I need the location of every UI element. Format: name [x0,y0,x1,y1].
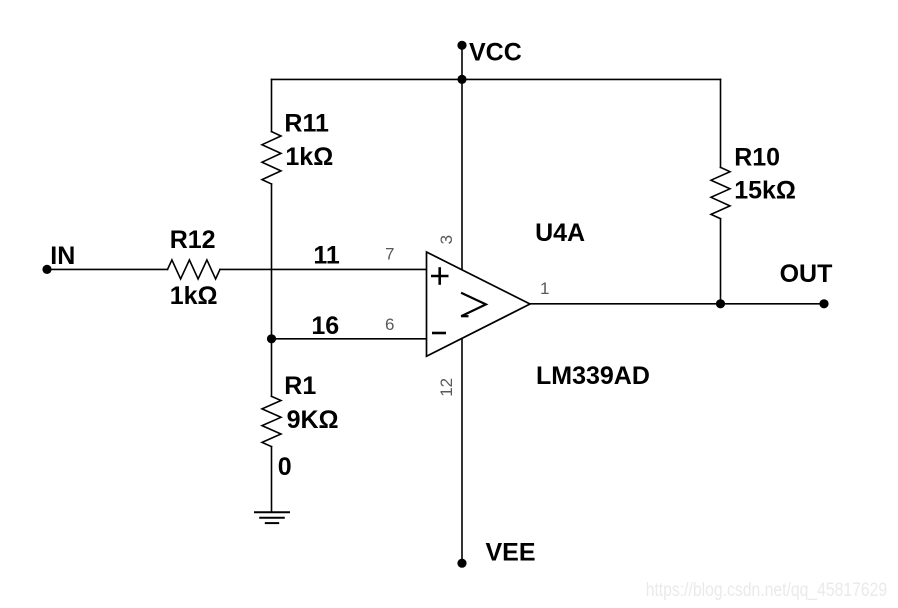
svg-text:R10: R10 [734,143,780,171]
svg-text:6: 6 [385,315,394,334]
svg-text:0: 0 [278,453,292,481]
svg-text:3: 3 [437,235,456,244]
svg-text:16: 16 [311,312,339,340]
svg-text:IN: IN [50,242,75,270]
svg-text:U4A: U4A [535,219,585,247]
svg-text:R11: R11 [284,110,329,138]
svg-text:R12: R12 [170,226,216,254]
svg-text:1kΩ: 1kΩ [285,143,333,171]
svg-text:15kΩ: 15kΩ [734,177,796,205]
svg-text:11: 11 [313,241,340,269]
svg-text:1kΩ: 1kΩ [170,282,218,310]
svg-text:1: 1 [540,279,549,298]
svg-text:9KΩ: 9KΩ [287,406,339,434]
svg-text:VCC: VCC [469,39,522,67]
svg-text:VEE: VEE [486,539,536,567]
svg-text:12: 12 [437,378,456,397]
svg-text:7: 7 [385,245,394,264]
svg-text:R1: R1 [284,372,316,400]
svg-text:https://blog.csdn.net/qq_45817: https://blog.csdn.net/qq_45817629 [646,580,887,601]
svg-text:LM339AD: LM339AD [536,362,650,390]
svg-text:OUT: OUT [780,260,833,288]
